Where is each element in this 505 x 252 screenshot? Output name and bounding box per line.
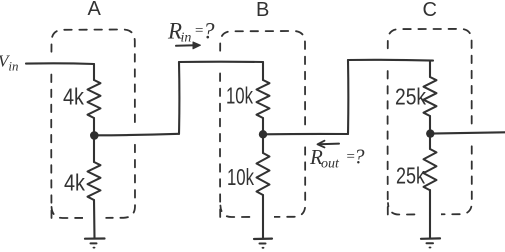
wire: R3 to node B mid <box>262 118 264 134</box>
wire: R1 to node A mid <box>93 118 95 135</box>
dash gaps where wires cross box outlines <box>52 54 472 219</box>
wire: R2 to ground A <box>93 200 96 239</box>
wire: top lead of divider C <box>429 61 431 78</box>
wire: R4 to ground B <box>262 195 264 238</box>
ground B <box>254 239 272 248</box>
wire: top wire into C <box>348 59 433 62</box>
svg-text:A: A <box>88 0 102 20</box>
wire: R6 to ground C <box>429 190 431 238</box>
wire: bottom lead node to R2 <box>93 135 95 162</box>
svg-text:?: ? <box>203 19 215 44</box>
wire: top wire into B <box>179 61 263 63</box>
ground C <box>421 238 440 247</box>
wire: top lead of divider B <box>262 62 264 80</box>
wire: Vin input lead <box>26 62 94 65</box>
svg-text:4k: 4k <box>64 170 85 196</box>
wire: node C to R6 <box>429 134 431 150</box>
resistor R6 25k (bottom of C) zigzag <box>424 149 437 190</box>
svg-text:out: out <box>321 157 340 172</box>
label Rin = ? <box>167 19 215 46</box>
label Rout = ? <box>309 145 365 172</box>
node B junction dot <box>259 130 267 138</box>
svg-text:B: B <box>256 0 269 21</box>
wire: R5 to node C mid <box>429 116 431 134</box>
wire: node B to step <box>263 133 348 136</box>
wire: node A to step <box>94 134 179 136</box>
svg-text:10k: 10k <box>226 83 253 109</box>
svg-text:4k: 4k <box>63 84 84 110</box>
svg-text:25k: 25k <box>396 163 425 189</box>
wire: step up B->C <box>347 60 349 134</box>
svg-text:10k: 10k <box>227 164 254 190</box>
resistor R1 4k (top of A) zigzag <box>88 80 101 118</box>
wire: node B to R4 <box>262 134 264 153</box>
svg-text:Vin: Vin <box>0 52 19 74</box>
resistor R5 25k (top of C) zigzag <box>424 77 437 116</box>
network box A (dashed outline) <box>51 30 135 219</box>
node A junction dot <box>90 131 99 140</box>
network box B (dashed outline) <box>220 31 305 217</box>
svg-text:in: in <box>181 31 192 46</box>
arrow Rout (points left) <box>318 141 340 148</box>
resistor R2 4k (bottom of A) zigzag <box>88 162 101 200</box>
wire: top lead of divider A <box>93 64 95 80</box>
resistor R4 10k (bottom of B) zigzag <box>257 153 270 195</box>
network box C (dashed outline) <box>388 29 472 215</box>
svg-text:C: C <box>423 0 437 21</box>
svg-text:25k: 25k <box>395 84 426 110</box>
resistor R3 10k (top of B) zigzag <box>257 80 270 118</box>
svg-text:?: ? <box>354 145 365 169</box>
arrow Rin (points right) <box>176 42 201 49</box>
node C junction dot <box>426 129 434 137</box>
wire: output lead from node C <box>430 132 505 133</box>
wire: step up A->B <box>178 62 180 134</box>
ground A <box>85 239 105 248</box>
